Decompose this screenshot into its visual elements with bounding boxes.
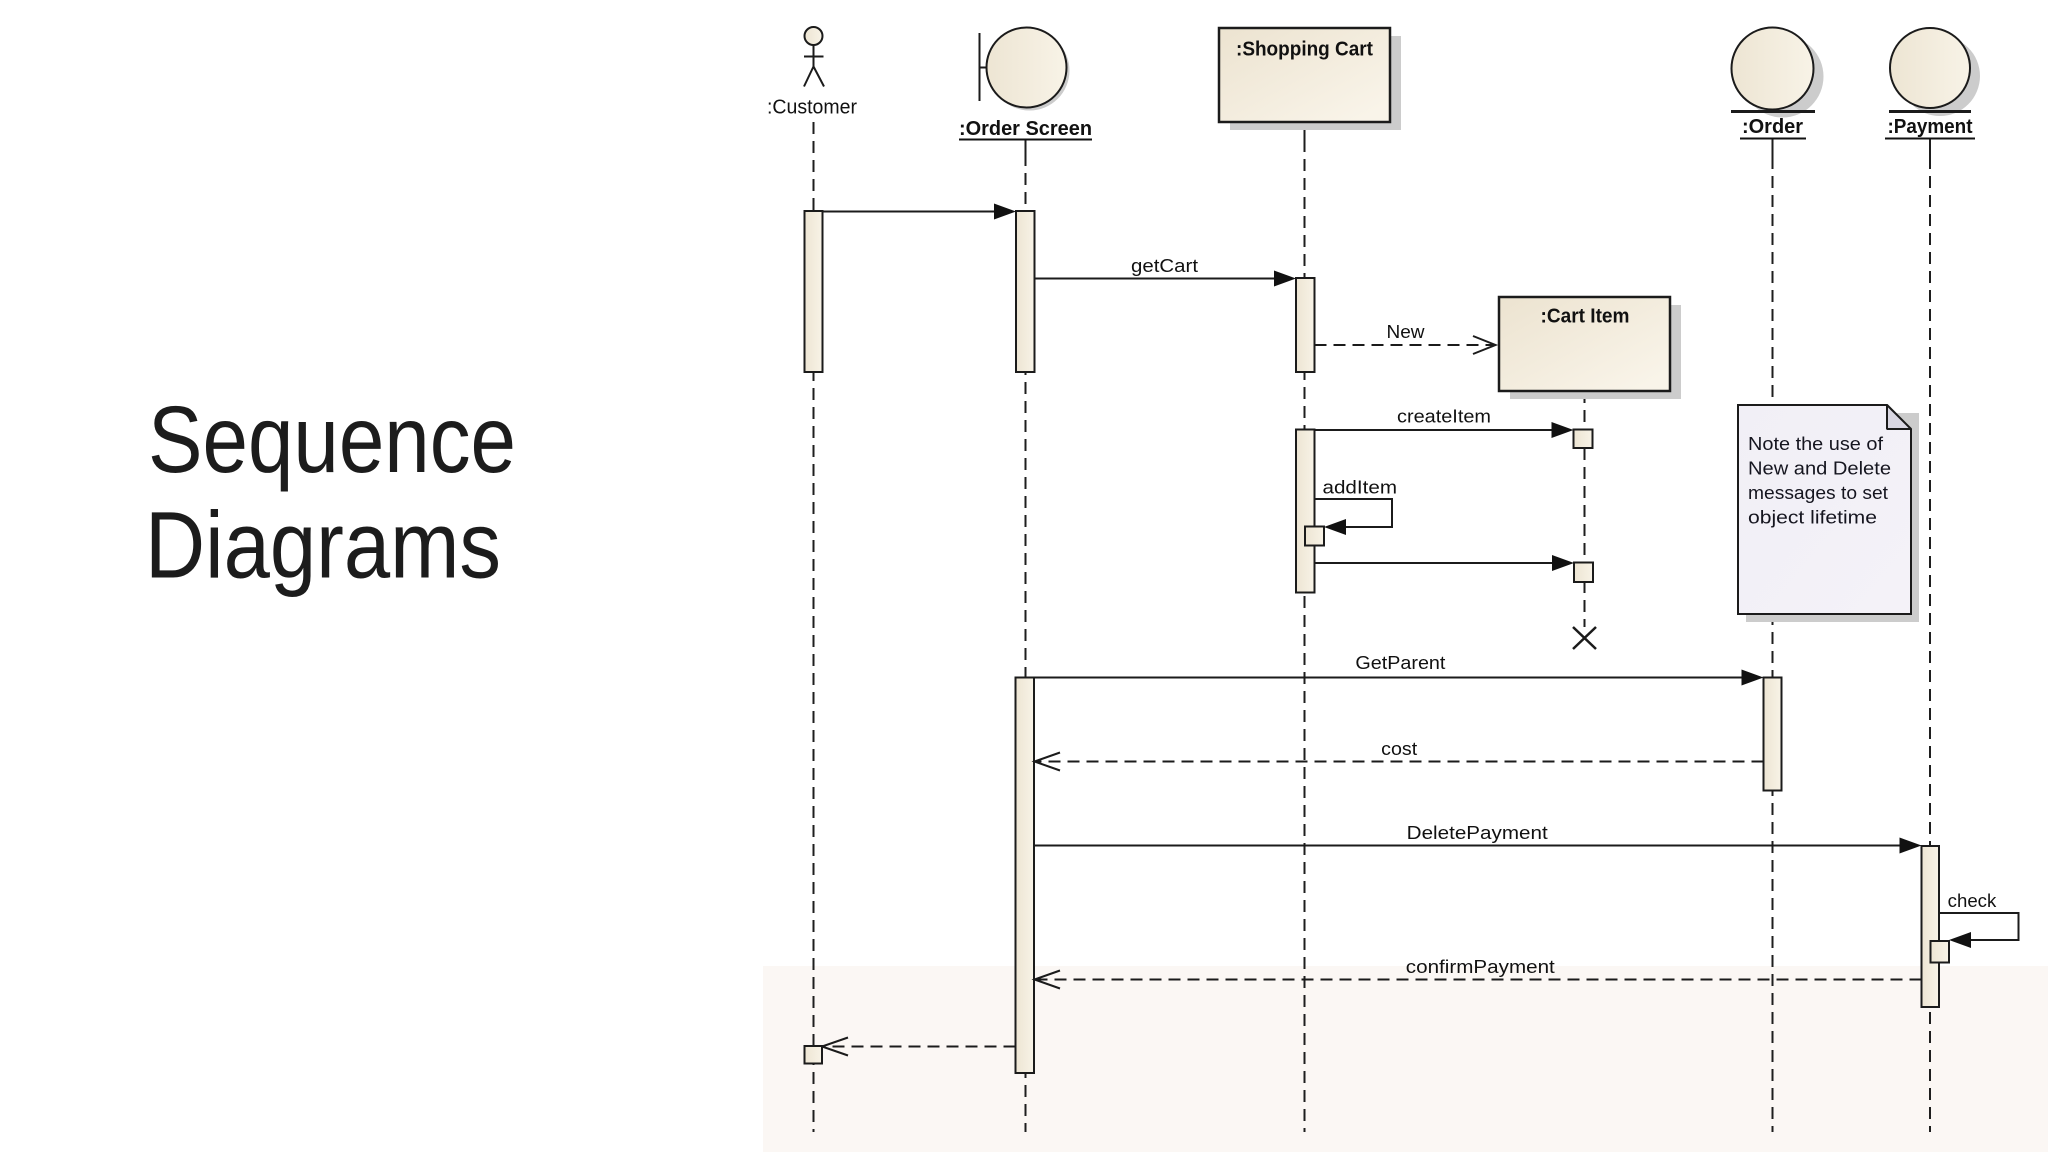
message DeletePayment: [1035, 823, 1922, 854]
svg-text:Diagrams: Diagrams: [145, 493, 501, 599]
activation Customer: [805, 211, 823, 372]
svg-text:New and Delete: New and Delete: [1748, 459, 1891, 479]
svg-text:object lifetime: object lifetime: [1748, 508, 1877, 528]
lifeline Order: [1772, 139, 1774, 1132]
message GetParent: [1035, 653, 1764, 686]
lifeline Customer: [813, 122, 815, 1132]
message confirmPayment (dashed return): [1035, 957, 1922, 989]
nested activation on Payment (check): [1931, 941, 1950, 963]
svg-text:New: New: [1387, 322, 1426, 342]
svg-text:messages to set: messages to set: [1748, 483, 1888, 503]
message 1 Customer to Order Screen: [823, 204, 1017, 220]
svg-text::Shopping Cart: :Shopping Cart: [1236, 39, 1373, 61]
label :Order: [1740, 116, 1806, 139]
svg-text:getCart: getCart: [1131, 256, 1198, 276]
lifeline Shopping Cart: [1304, 122, 1306, 1132]
svg-text:GetParent: GetParent: [1355, 653, 1445, 673]
svg-text:confirmPayment: confirmPayment: [1406, 957, 1555, 977]
svg-text:Note the use of: Note the use of: [1748, 434, 1884, 454]
nested activation on Cart Item (createItem): [1574, 430, 1593, 449]
object Shopping Cart: [1219, 28, 1401, 130]
title Sequence Diagrams: [145, 387, 516, 599]
lifeline Payment: [1929, 139, 1931, 1132]
svg-text:createItem: createItem: [1397, 407, 1491, 427]
message delete to Cart Item: [1315, 555, 1575, 571]
object Cart Item: [1499, 297, 1681, 399]
diagram background tint band: [763, 966, 2048, 1152]
activation Order Screen 2: [1016, 678, 1035, 1074]
svg-text::Cart Item: :Cart Item: [1541, 306, 1630, 328]
activation Order Screen 1: [1016, 211, 1035, 372]
svg-text::Customer: :Customer: [767, 97, 857, 119]
label :Payment: [1885, 116, 1975, 139]
boundary Order Screen: [980, 28, 1070, 111]
activation Shopping Cart 1: [1296, 278, 1315, 372]
actor Customer: [804, 27, 824, 87]
message final return to Customer (dashed): [822, 1038, 1016, 1056]
svg-text:Sequence: Sequence: [148, 387, 516, 493]
activation Shopping Cart 2: [1296, 430, 1315, 593]
svg-text::Order: :Order: [1742, 116, 1803, 138]
destroy X on Cart Item: [1573, 627, 1596, 649]
lifeline Cart Item: [1584, 391, 1586, 627]
message getCart: [1035, 256, 1297, 287]
nested activation on Shopping Cart (addItem): [1305, 527, 1324, 546]
entity Order: [1731, 28, 1824, 118]
entity Payment: [1889, 28, 1980, 116]
message addItem (self): [1315, 478, 1398, 536]
message cost (dashed return): [1035, 739, 1764, 771]
activation Order: [1764, 678, 1782, 791]
svg-text:check: check: [1948, 891, 1998, 911]
message check (self): [1939, 891, 2019, 948]
svg-text::Order Screen: :Order Screen: [959, 118, 1092, 140]
note: use of New and Delete: [1738, 405, 1919, 622]
activation Payment: [1922, 846, 1940, 1007]
message New (dashed create): [1315, 322, 1496, 354]
message createItem: [1315, 407, 1574, 439]
label :Order Screen: [959, 118, 1092, 140]
lifeline Order Screen: [1025, 139, 1027, 1132]
svg-text:cost: cost: [1381, 739, 1417, 759]
svg-text:DeletePayment: DeletePayment: [1407, 823, 1548, 843]
svg-text::Payment: :Payment: [1888, 116, 1973, 138]
nested activation on Cart Item (delete): [1574, 563, 1593, 583]
svg-text:addItem: addItem: [1323, 478, 1398, 498]
nested activation on Customer (return): [805, 1046, 823, 1064]
